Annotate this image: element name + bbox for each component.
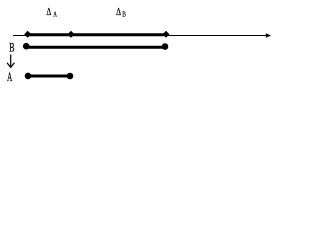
- diamond marker left: [24, 31, 31, 38]
- svg-text:A: A: [53, 10, 57, 19]
- diamond marker right: [163, 31, 170, 38]
- interval A bar: [25, 73, 74, 80]
- diamond marker middle: [68, 31, 75, 38]
- svg-text:A: A: [7, 69, 13, 84]
- dot A left: [25, 73, 32, 80]
- dot B right: [162, 43, 169, 50]
- dot B left: [23, 43, 30, 50]
- interval B bar: [23, 43, 168, 50]
- svg-text:B: B: [9, 39, 15, 54]
- thick segment on axis: [28, 33, 166, 36]
- label Delta_A: [46, 7, 57, 19]
- time axis (thin arrow line): [13, 33, 271, 37]
- svg-text:B: B: [122, 10, 126, 19]
- dot A right: [67, 73, 74, 80]
- svg-text:Δ: Δ: [46, 7, 51, 18]
- down arrow from B to A: [7, 55, 14, 68]
- svg-text:Δ: Δ: [116, 7, 121, 18]
- label Delta_B: [116, 7, 126, 19]
